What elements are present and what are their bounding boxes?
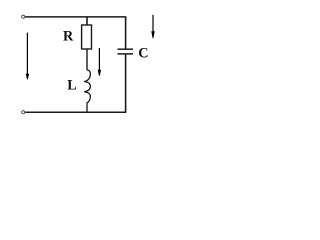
svg-text:R: R — [63, 28, 74, 44]
svg-text:C: C — [138, 46, 148, 62]
svg-text:L: L — [67, 77, 76, 93]
